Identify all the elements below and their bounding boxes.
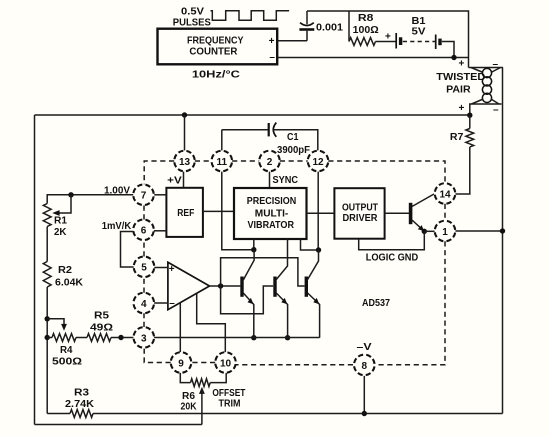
svg-text:R3: R3	[74, 387, 89, 398]
svg-text:49Ω: 49Ω	[90, 323, 113, 334]
svg-text:AD537: AD537	[362, 298, 390, 309]
pin 2	[259, 151, 280, 172]
frequency counter box	[158, 29, 278, 65]
capacitor C1 curved plate	[273, 123, 276, 137]
svg-text:1mV/K: 1mV/K	[102, 221, 132, 232]
wire pin 6 to pin 5 bracket	[121, 232, 134, 268]
wire pin 4 to op-amp -	[154, 302, 168, 304]
svg-text:MULTI-: MULTI-	[255, 208, 288, 219]
wire Q4 emitter to pin 1	[424, 230, 434, 232]
wire op-amp to pin 9	[179, 303, 181, 352]
wire pin 6 to REF	[154, 230, 167, 232]
svg-text:10: 10	[220, 358, 232, 369]
svg-text:–: –	[493, 59, 499, 70]
wire pin 13 to REF (+V)	[183, 172, 185, 188]
twisted pair upper slants	[471, 68, 501, 73]
junction pin1/right rail	[500, 228, 505, 233]
capacitor C1 straight plate	[268, 123, 270, 136]
wire pin 11 down to multivibrator net	[222, 172, 252, 250]
battery B1 dashed link	[403, 41, 435, 43]
wire bottom rail	[35, 424, 202, 426]
transistor Q2 emitter	[276, 293, 287, 338]
transistor Q1 emitter	[243, 293, 254, 338]
svg-text:0.001: 0.001	[316, 22, 343, 33]
pin 13	[174, 151, 195, 172]
AD537 package outline 1 to bottom corner	[376, 241, 445, 364]
svg-text:5: 5	[141, 263, 147, 274]
capacitor 0.001 (top lead)	[306, 11, 308, 24]
svg-text:LOGIC GND: LOGIC GND	[366, 252, 419, 263]
svg-text:6: 6	[141, 226, 147, 237]
wire right rail (twisted pair - net)	[502, 68, 504, 414]
twisted pair lower bar	[469, 103, 502, 105]
junction battery/counter-minus	[451, 55, 456, 60]
wire left rail	[34, 115, 36, 425]
transistor Q2 collector	[276, 239, 287, 280]
junction Q2 emitter/pin3 net	[285, 335, 290, 340]
block REF	[166, 188, 203, 237]
AD537 package outline 14-1	[444, 204, 446, 221]
pin 6	[133, 220, 154, 241]
svg-text:7: 7	[141, 191, 147, 202]
wire frequency counter + lead	[277, 40, 307, 42]
twisted pair upper bar	[469, 67, 504, 69]
wire R7 top lead	[469, 115, 471, 128]
wire pin 7 to REF	[154, 194, 166, 196]
wire pin 9 to R6	[180, 373, 190, 383]
svg-text:SYNC: SYNC	[273, 175, 299, 186]
AD537 package outline 4-5	[143, 277, 145, 293]
pin 10	[215, 352, 236, 373]
svg-text:–: –	[169, 298, 175, 309]
svg-text:R4: R4	[60, 345, 73, 356]
svg-text:0.5V: 0.5V	[181, 6, 204, 17]
wire multivibrator to output driver	[307, 212, 335, 214]
transistor Q4 base bar	[409, 203, 413, 224]
svg-text:11: 11	[217, 157, 228, 168]
AD537 package outline 12 to right corner	[328, 161, 445, 183]
resistor R2	[43, 262, 51, 287]
wire R4 wiper	[47, 319, 64, 325]
pin 4	[134, 293, 155, 314]
junction multivibrator/Q1 collector/pin 11	[251, 247, 256, 252]
AD537 package outline 5-6	[143, 240, 145, 256]
wire pin 11 to C1	[221, 130, 223, 151]
svg-text:+: +	[459, 59, 465, 70]
transistor Q2 base bar	[273, 277, 276, 297]
svg-text:20K: 20K	[181, 401, 198, 412]
svg-text:2: 2	[267, 157, 273, 168]
wire multivibrator bottom drop 1	[253, 239, 255, 250]
svg-text:COUNTER: COUNTER	[189, 47, 238, 58]
transistor Q4 emitter	[412, 220, 424, 231]
wire output to Q2 base (lower route)	[221, 286, 274, 314]
wire pin 12 down	[317, 172, 319, 250]
junction pin8/-V rail	[362, 411, 367, 416]
wire R2/R4 branch down to R3	[46, 338, 48, 414]
twisted pair lower slants	[472, 99, 500, 104]
wire lower bar + lead	[469, 104, 471, 115]
svg-text:–: –	[269, 52, 275, 63]
pin 7	[133, 185, 154, 206]
battery B1 cell 1 short plate	[399, 37, 402, 45]
svg-text:4: 4	[141, 299, 147, 310]
wire output driver to Q4 base	[385, 212, 409, 214]
svg-text:R7: R7	[450, 132, 464, 143]
svg-text:500Ω: 500Ω	[52, 357, 82, 368]
svg-text:PULSES: PULSES	[173, 17, 211, 28]
resistor R3	[70, 410, 93, 418]
transistor Q1 base bar	[240, 277, 243, 297]
wire R2 to R4 node	[46, 287, 48, 338]
svg-text:VIBRATOR: VIBRATOR	[248, 220, 295, 231]
wire emitter bus (pin 3 net)	[154, 337, 320, 339]
twisted pair coil	[482, 68, 491, 102]
junction R1 wiper tap	[68, 192, 73, 197]
capacitor 0.001 curved plate	[300, 23, 314, 26]
svg-text:10Hz/°C: 10Hz/°C	[192, 70, 240, 81]
wire R7 to pin 14	[455, 147, 469, 194]
svg-text:1: 1	[442, 227, 448, 238]
svg-text:–V: –V	[357, 342, 372, 353]
battery B1 cell 1 long plate	[395, 33, 397, 49]
svg-text:DRIVER: DRIVER	[343, 213, 379, 224]
capacitor 0.001 straight plate	[299, 28, 314, 31]
svg-text:3900pF: 3900pF	[277, 145, 310, 156]
wire multivibrator bottom drop 2	[301, 239, 317, 250]
transistor Q2 emitter arrowhead	[281, 298, 287, 304]
svg-text:REF: REF	[177, 208, 194, 219]
wire op-amp to pin 10	[197, 294, 226, 353]
op-amp buffer triangle	[168, 262, 210, 309]
svg-text:+: +	[169, 264, 175, 275]
transistor Q3 base bar	[305, 277, 308, 297]
pulse waveform glyph	[211, 11, 290, 21]
wire inner top rail (+V net)	[35, 114, 470, 116]
wire R4 to R5	[76, 337, 87, 339]
pin 14	[435, 183, 456, 204]
transistor Q3 emitter	[308, 293, 320, 338]
wire R5 to pin 3	[111, 337, 133, 339]
R4 wiper arrowhead	[61, 324, 67, 331]
AD537 package outline 8-10	[236, 364, 353, 366]
svg-text:6.04K: 6.04K	[55, 278, 84, 289]
pin 11	[212, 151, 233, 172]
pin 12	[308, 151, 329, 172]
pin 1	[435, 221, 456, 242]
AD537 package outline 11-2	[232, 160, 259, 162]
pin 9	[171, 352, 192, 373]
capacitor 0.001 bottom lead	[306, 31, 308, 41]
pin 8	[354, 355, 375, 376]
block PRECISION MULTIVIBRATOR	[234, 188, 307, 239]
wire pin 2 to SYNC	[269, 172, 271, 188]
resistor R7	[466, 129, 474, 147]
svg-text:R5: R5	[94, 311, 109, 322]
svg-text:12: 12	[312, 157, 324, 168]
wire R6 to pin 10	[210, 373, 226, 383]
wire op-amp output	[210, 285, 241, 287]
wire top rail (pulse/battery net)	[307, 11, 469, 68]
wire R8 drop from top rail	[348, 11, 350, 42]
R6 wiper arrowhead	[199, 387, 205, 394]
pin 3	[134, 327, 155, 348]
battery B1 cell 2 long plate	[435, 35, 437, 50]
wire pin 5 to op-amp +	[154, 267, 168, 269]
resistor R4 (500 ohm pot)	[52, 334, 76, 342]
svg-text:R2: R2	[58, 265, 72, 276]
wire +V rail to pin 13	[184, 115, 186, 150]
resistor R5	[87, 334, 111, 342]
svg-text:14: 14	[439, 189, 451, 200]
transistor Q4 collector	[412, 194, 434, 207]
transistor Q3 emitter arrowhead	[313, 298, 319, 304]
AD537 package outline 9 to left corner	[144, 348, 171, 363]
junction pin12/Q3 collector	[316, 247, 321, 252]
svg-text:+V: +V	[167, 176, 182, 187]
junction twisted pair + / +V rail	[467, 113, 472, 118]
svg-text:R8: R8	[358, 13, 374, 24]
svg-text:B1: B1	[412, 16, 426, 27]
svg-text:8: 8	[362, 361, 368, 372]
junction Q1 emitter/pin3 net	[251, 335, 256, 340]
resistor R8	[349, 38, 375, 46]
svg-text:3: 3	[141, 333, 147, 344]
svg-text:+: +	[269, 36, 275, 47]
wire R1 wiper	[59, 195, 71, 213]
svg-text:9: 9	[178, 358, 184, 369]
svg-text:+: +	[459, 103, 465, 114]
AD537 package outline 3-4	[143, 313, 145, 327]
svg-text:TRIM: TRIM	[219, 398, 241, 409]
junction R2/R4/R3 node	[45, 335, 50, 340]
wire -V bottom rail right of R3	[93, 413, 503, 415]
block OUTPUT DRIVER	[334, 188, 384, 239]
wire R8 to battery	[376, 41, 397, 43]
capacitor C1 right lead	[274, 130, 318, 151]
wire node to R4	[47, 337, 52, 339]
transistor Q1 collector	[243, 250, 254, 280]
capacitor C1 left lead	[222, 129, 268, 131]
R1 wiper arrowhead	[52, 210, 59, 216]
svg-text:5V: 5V	[412, 27, 426, 38]
svg-text:C1: C1	[287, 132, 299, 143]
AD537 package outline 2-12	[280, 160, 308, 162]
wire pin 7 to R1 (1.00V net)	[47, 195, 133, 204]
svg-text:13: 13	[179, 157, 191, 168]
svg-text:PAIR: PAIR	[446, 85, 471, 96]
junction R5/pin3	[118, 335, 123, 340]
transistor Q3 collector	[308, 250, 319, 280]
wire pin 8 to -V rail	[363, 376, 365, 414]
wire -V bottom rail	[47, 413, 70, 415]
svg-text:+: +	[385, 32, 391, 43]
battery B1 cell 2 short plate	[438, 39, 441, 46]
wire frequency counter - lead	[277, 57, 468, 59]
transistor Q4 emitter arrowhead	[418, 225, 424, 231]
svg-text:100Ω: 100Ω	[353, 25, 379, 36]
svg-text:1.00V: 1.00V	[104, 185, 130, 196]
svg-text:R1: R1	[54, 216, 67, 227]
transistor Q1 emitter arrowhead	[248, 298, 254, 304]
wire logic ground return	[359, 231, 425, 249]
junction Q4 emitter/pin1/logic gnd	[422, 229, 427, 234]
svg-text:TWISTED: TWISTED	[436, 72, 485, 83]
AD537 package outline 10-9	[191, 362, 215, 364]
wire output to Q3 base (upper route)	[221, 258, 305, 286]
svg-text:PRECISION: PRECISION	[247, 196, 296, 207]
wire R6 wiper to bottom rail	[201, 391, 203, 425]
svg-text:FREQUENCY: FREQUENCY	[187, 36, 244, 47]
junction R4 wiper tap	[45, 316, 50, 321]
wire REF to multivibrator	[203, 210, 234, 212]
svg-text:2.74K: 2.74K	[65, 399, 95, 410]
AD537 package outline top-left	[144, 161, 174, 184]
wire battery output	[442, 42, 454, 58]
AD537 package outline 13-11	[195, 160, 212, 162]
svg-text:2K: 2K	[54, 227, 67, 238]
resistor R6 (20K offset trim)	[191, 379, 211, 387]
junction pin13/+V rail	[182, 112, 187, 117]
resistor R1 (2K pot)	[43, 204, 51, 227]
wire pin 1 to right rail	[455, 230, 502, 232]
pin 5	[134, 257, 155, 278]
wire R1 to R2	[46, 227, 48, 262]
AD537 package outline 6-7	[143, 205, 145, 219]
junction op-amp output	[218, 283, 223, 288]
svg-text:–: –	[493, 105, 499, 116]
